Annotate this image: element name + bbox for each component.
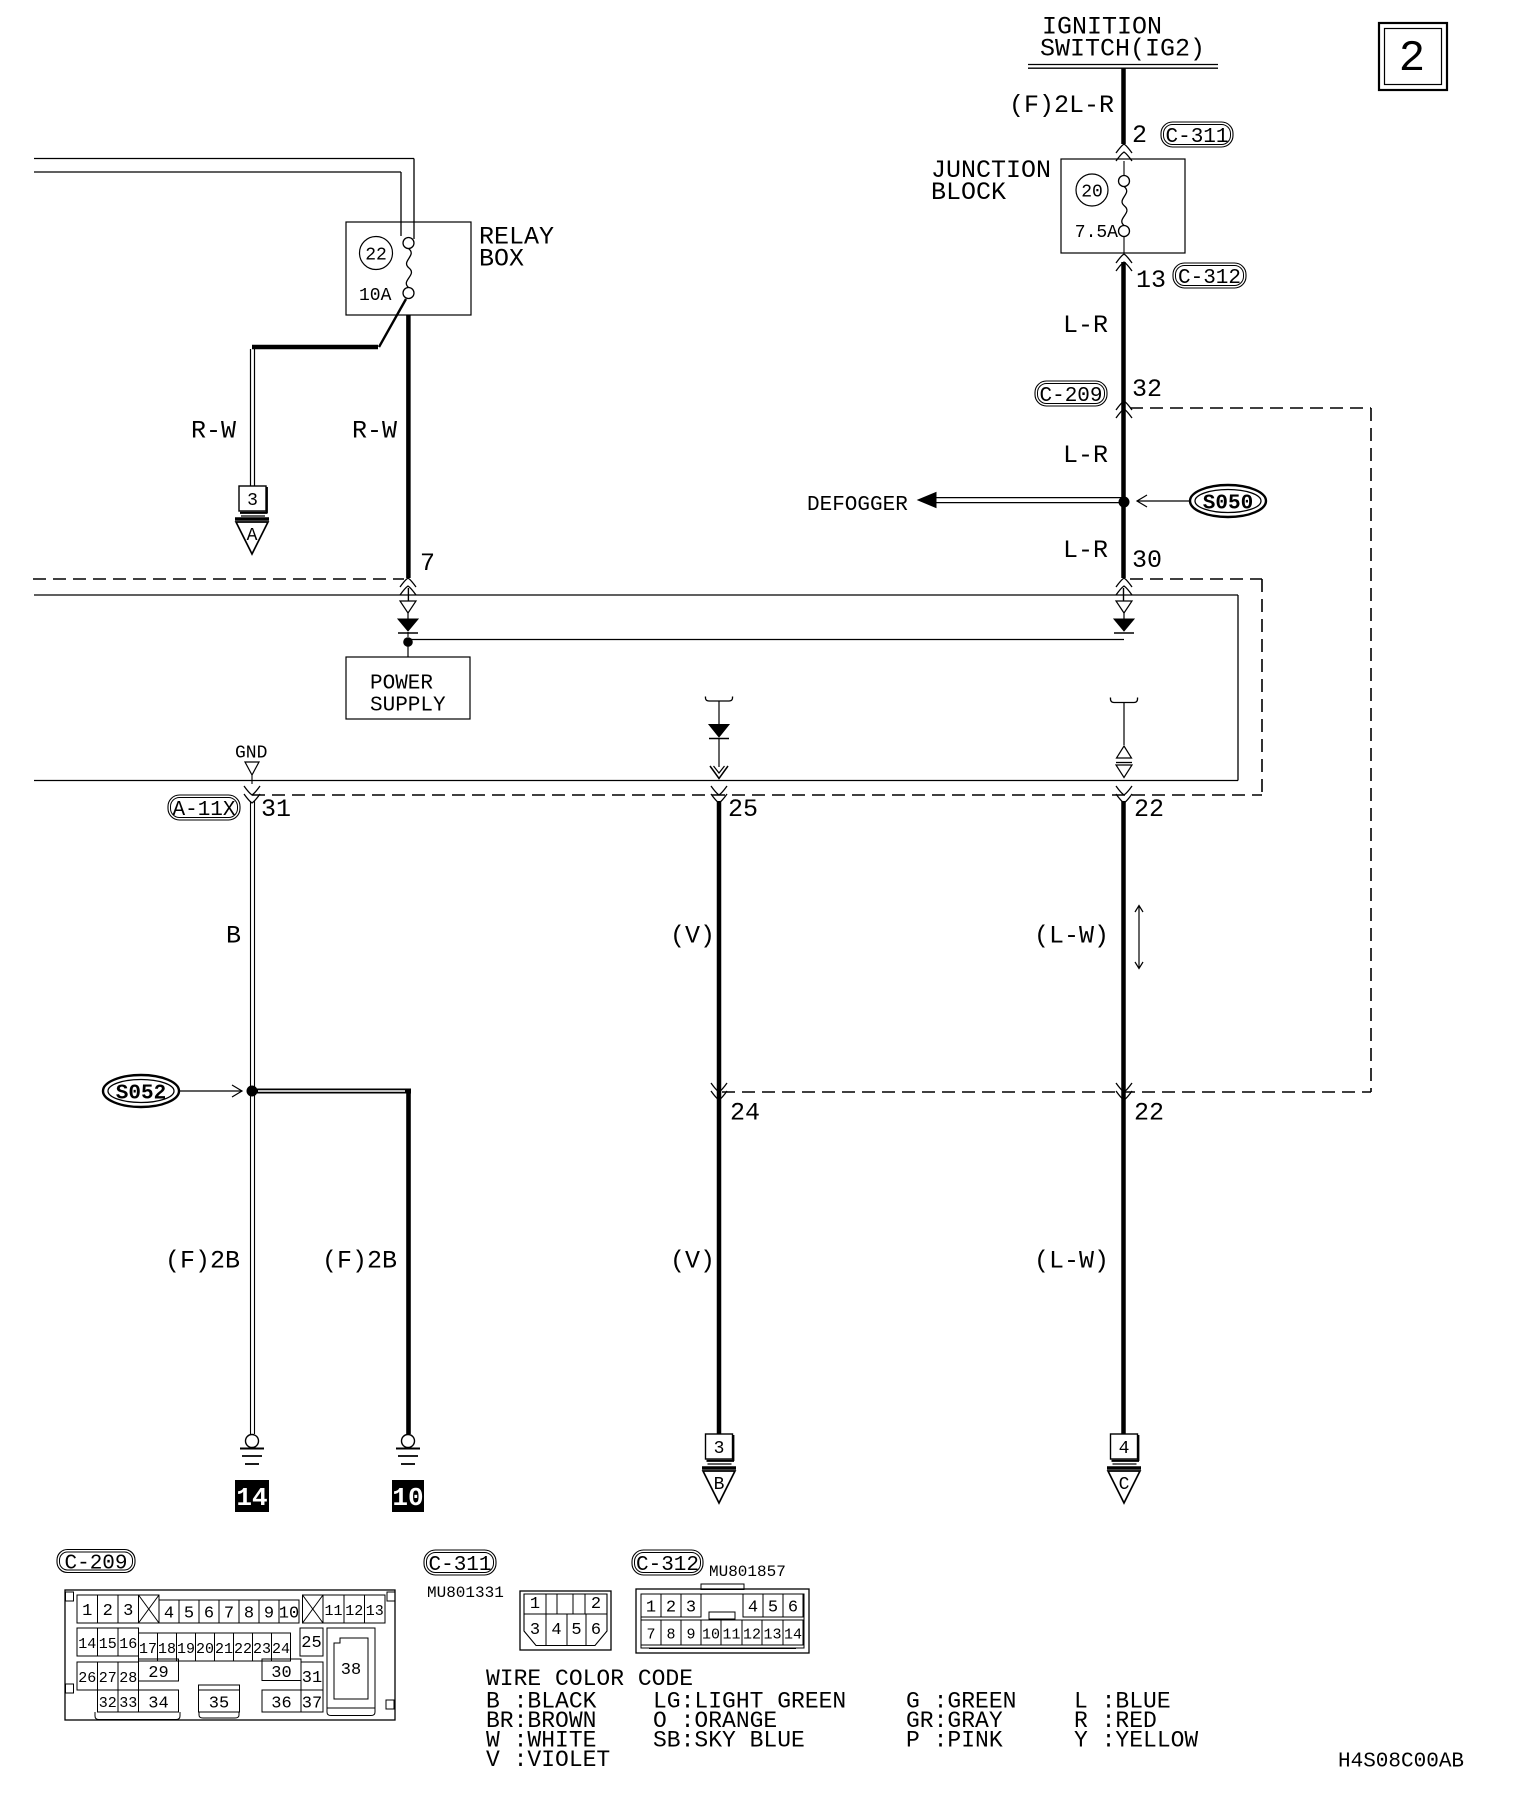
svg-text:14: 14 [784,1627,802,1644]
svg-text:20: 20 [196,1641,214,1658]
svg-text:(V): (V) [670,922,715,951]
svg-text:10: 10 [392,1483,423,1513]
svg-text:4: 4 [551,1621,561,1640]
svg-text:BOX: BOX [479,245,524,274]
svg-text:28: 28 [119,1670,137,1687]
svg-text:B: B [714,1475,725,1495]
svg-text:A: A [247,526,258,546]
svg-text:MU801857: MU801857 [709,1563,786,1581]
svg-text:20: 20 [1081,183,1103,203]
svg-text:BLOCK: BLOCK [931,178,1006,207]
svg-text:B: B [226,922,241,951]
svg-text:12: 12 [345,1603,363,1620]
svg-text:3: 3 [714,1439,725,1459]
svg-text:S052: S052 [116,1082,166,1105]
svg-text:14: 14 [236,1483,267,1513]
svg-text:(V): (V) [670,1247,715,1276]
svg-text:6: 6 [204,1605,214,1624]
svg-text:32: 32 [99,1695,117,1712]
svg-text:V :VIOLET: V :VIOLET [486,1747,610,1773]
svg-text:R-W: R-W [191,417,236,446]
svg-text:25: 25 [728,795,758,824]
svg-text:A-11X: A-11X [172,799,235,822]
svg-text:L-R: L-R [1063,441,1108,470]
svg-text:S050: S050 [1203,492,1253,515]
svg-text:37: 37 [302,1695,322,1714]
svg-text:5: 5 [184,1605,194,1624]
svg-text:31: 31 [261,795,291,824]
svg-text:24: 24 [272,1641,290,1658]
svg-text:(F)2L-R: (F)2L-R [1009,91,1114,120]
svg-text:30: 30 [1132,546,1162,575]
svg-text:L-R: L-R [1063,311,1108,340]
svg-text:25: 25 [301,1634,321,1653]
svg-text:5: 5 [571,1621,581,1640]
svg-text:22: 22 [365,246,387,266]
svg-text:C-312: C-312 [636,1554,699,1577]
svg-text:2: 2 [666,1599,676,1618]
svg-text:13: 13 [1136,266,1166,295]
svg-text:22: 22 [1134,795,1164,824]
svg-text:4: 4 [164,1605,174,1624]
svg-text:2: 2 [1132,121,1147,150]
svg-text:10A: 10A [359,286,392,306]
svg-text:19: 19 [177,1641,195,1658]
svg-text:GND: GND [235,744,267,764]
svg-text:7.5A: 7.5A [1075,223,1118,243]
svg-text:31: 31 [302,1669,322,1688]
svg-text:23: 23 [253,1641,271,1658]
svg-text:17: 17 [139,1641,157,1658]
svg-text:11: 11 [324,1603,342,1620]
svg-text:30: 30 [271,1664,291,1683]
svg-text:34: 34 [148,1695,168,1714]
svg-text:5: 5 [768,1599,778,1618]
svg-text:33: 33 [119,1695,137,1712]
svg-text:POWER: POWER [370,673,433,696]
svg-text:H4S08C00AB: H4S08C00AB [1338,1751,1464,1774]
svg-text:29: 29 [148,1664,168,1683]
svg-text:(F)2B: (F)2B [165,1247,240,1276]
svg-text:10: 10 [702,1627,720,1644]
svg-text:L-R: L-R [1063,536,1108,565]
svg-text:(L-W): (L-W) [1034,922,1109,951]
svg-text:22: 22 [234,1641,252,1658]
svg-text:4: 4 [748,1599,758,1618]
svg-text:7: 7 [646,1627,655,1644]
svg-text:18: 18 [158,1641,176,1658]
svg-text:2: 2 [103,1602,113,1621]
svg-text:C-312: C-312 [1178,267,1241,290]
svg-text:27: 27 [99,1670,117,1687]
svg-text:(F)2B: (F)2B [322,1247,397,1276]
svg-text:DEFOGGER: DEFOGGER [807,494,908,517]
svg-text:12: 12 [743,1627,761,1644]
svg-text:7: 7 [224,1605,234,1624]
svg-text:1: 1 [82,1602,92,1621]
svg-text:1: 1 [646,1599,656,1618]
svg-text:8: 8 [244,1605,254,1624]
svg-text:13: 13 [366,1603,384,1620]
svg-text:C-209: C-209 [64,1552,127,1575]
svg-text:35: 35 [209,1695,229,1714]
svg-text:1: 1 [530,1595,540,1614]
svg-text:3: 3 [247,491,258,511]
svg-text:15: 15 [99,1636,117,1653]
svg-text:P :PINK: P :PINK [906,1728,1003,1754]
svg-text:16: 16 [119,1636,137,1653]
svg-text:24: 24 [730,1099,760,1128]
svg-text:2: 2 [591,1595,601,1614]
svg-text:32: 32 [1132,375,1162,404]
svg-text:4: 4 [1119,1439,1130,1459]
svg-text:3: 3 [123,1602,133,1621]
svg-text:8: 8 [666,1627,675,1644]
svg-text:R-W: R-W [352,417,397,446]
svg-text:C: C [1119,1475,1130,1495]
svg-text:26: 26 [78,1670,96,1687]
svg-text:21: 21 [215,1641,233,1658]
svg-text:C-209: C-209 [1039,385,1102,408]
svg-text:9: 9 [264,1605,274,1624]
svg-text:SWITCH(IG2): SWITCH(IG2) [1040,35,1205,64]
svg-text:C-311: C-311 [428,1554,491,1577]
svg-text:10: 10 [279,1605,299,1624]
svg-text:SB:SKY BLUE: SB:SKY BLUE [653,1728,805,1754]
svg-text:38: 38 [341,1661,361,1680]
svg-text:2: 2 [1399,34,1425,84]
svg-text:7: 7 [420,549,435,578]
svg-text:(L-W): (L-W) [1034,1247,1109,1276]
svg-text:SUPPLY: SUPPLY [370,695,446,718]
svg-text:11: 11 [722,1627,740,1644]
svg-text:3: 3 [686,1599,696,1618]
svg-text:Y :YELLOW: Y :YELLOW [1074,1728,1198,1754]
svg-text:3: 3 [530,1621,540,1640]
svg-text:22: 22 [1134,1099,1164,1128]
svg-text:6: 6 [788,1599,798,1618]
svg-text:14: 14 [78,1636,96,1653]
svg-text:C-311: C-311 [1165,126,1228,149]
svg-text:MU801331: MU801331 [427,1584,504,1602]
svg-text:6: 6 [591,1621,601,1640]
svg-text:36: 36 [271,1695,291,1714]
svg-text:9: 9 [686,1627,695,1644]
svg-text:13: 13 [763,1627,781,1644]
